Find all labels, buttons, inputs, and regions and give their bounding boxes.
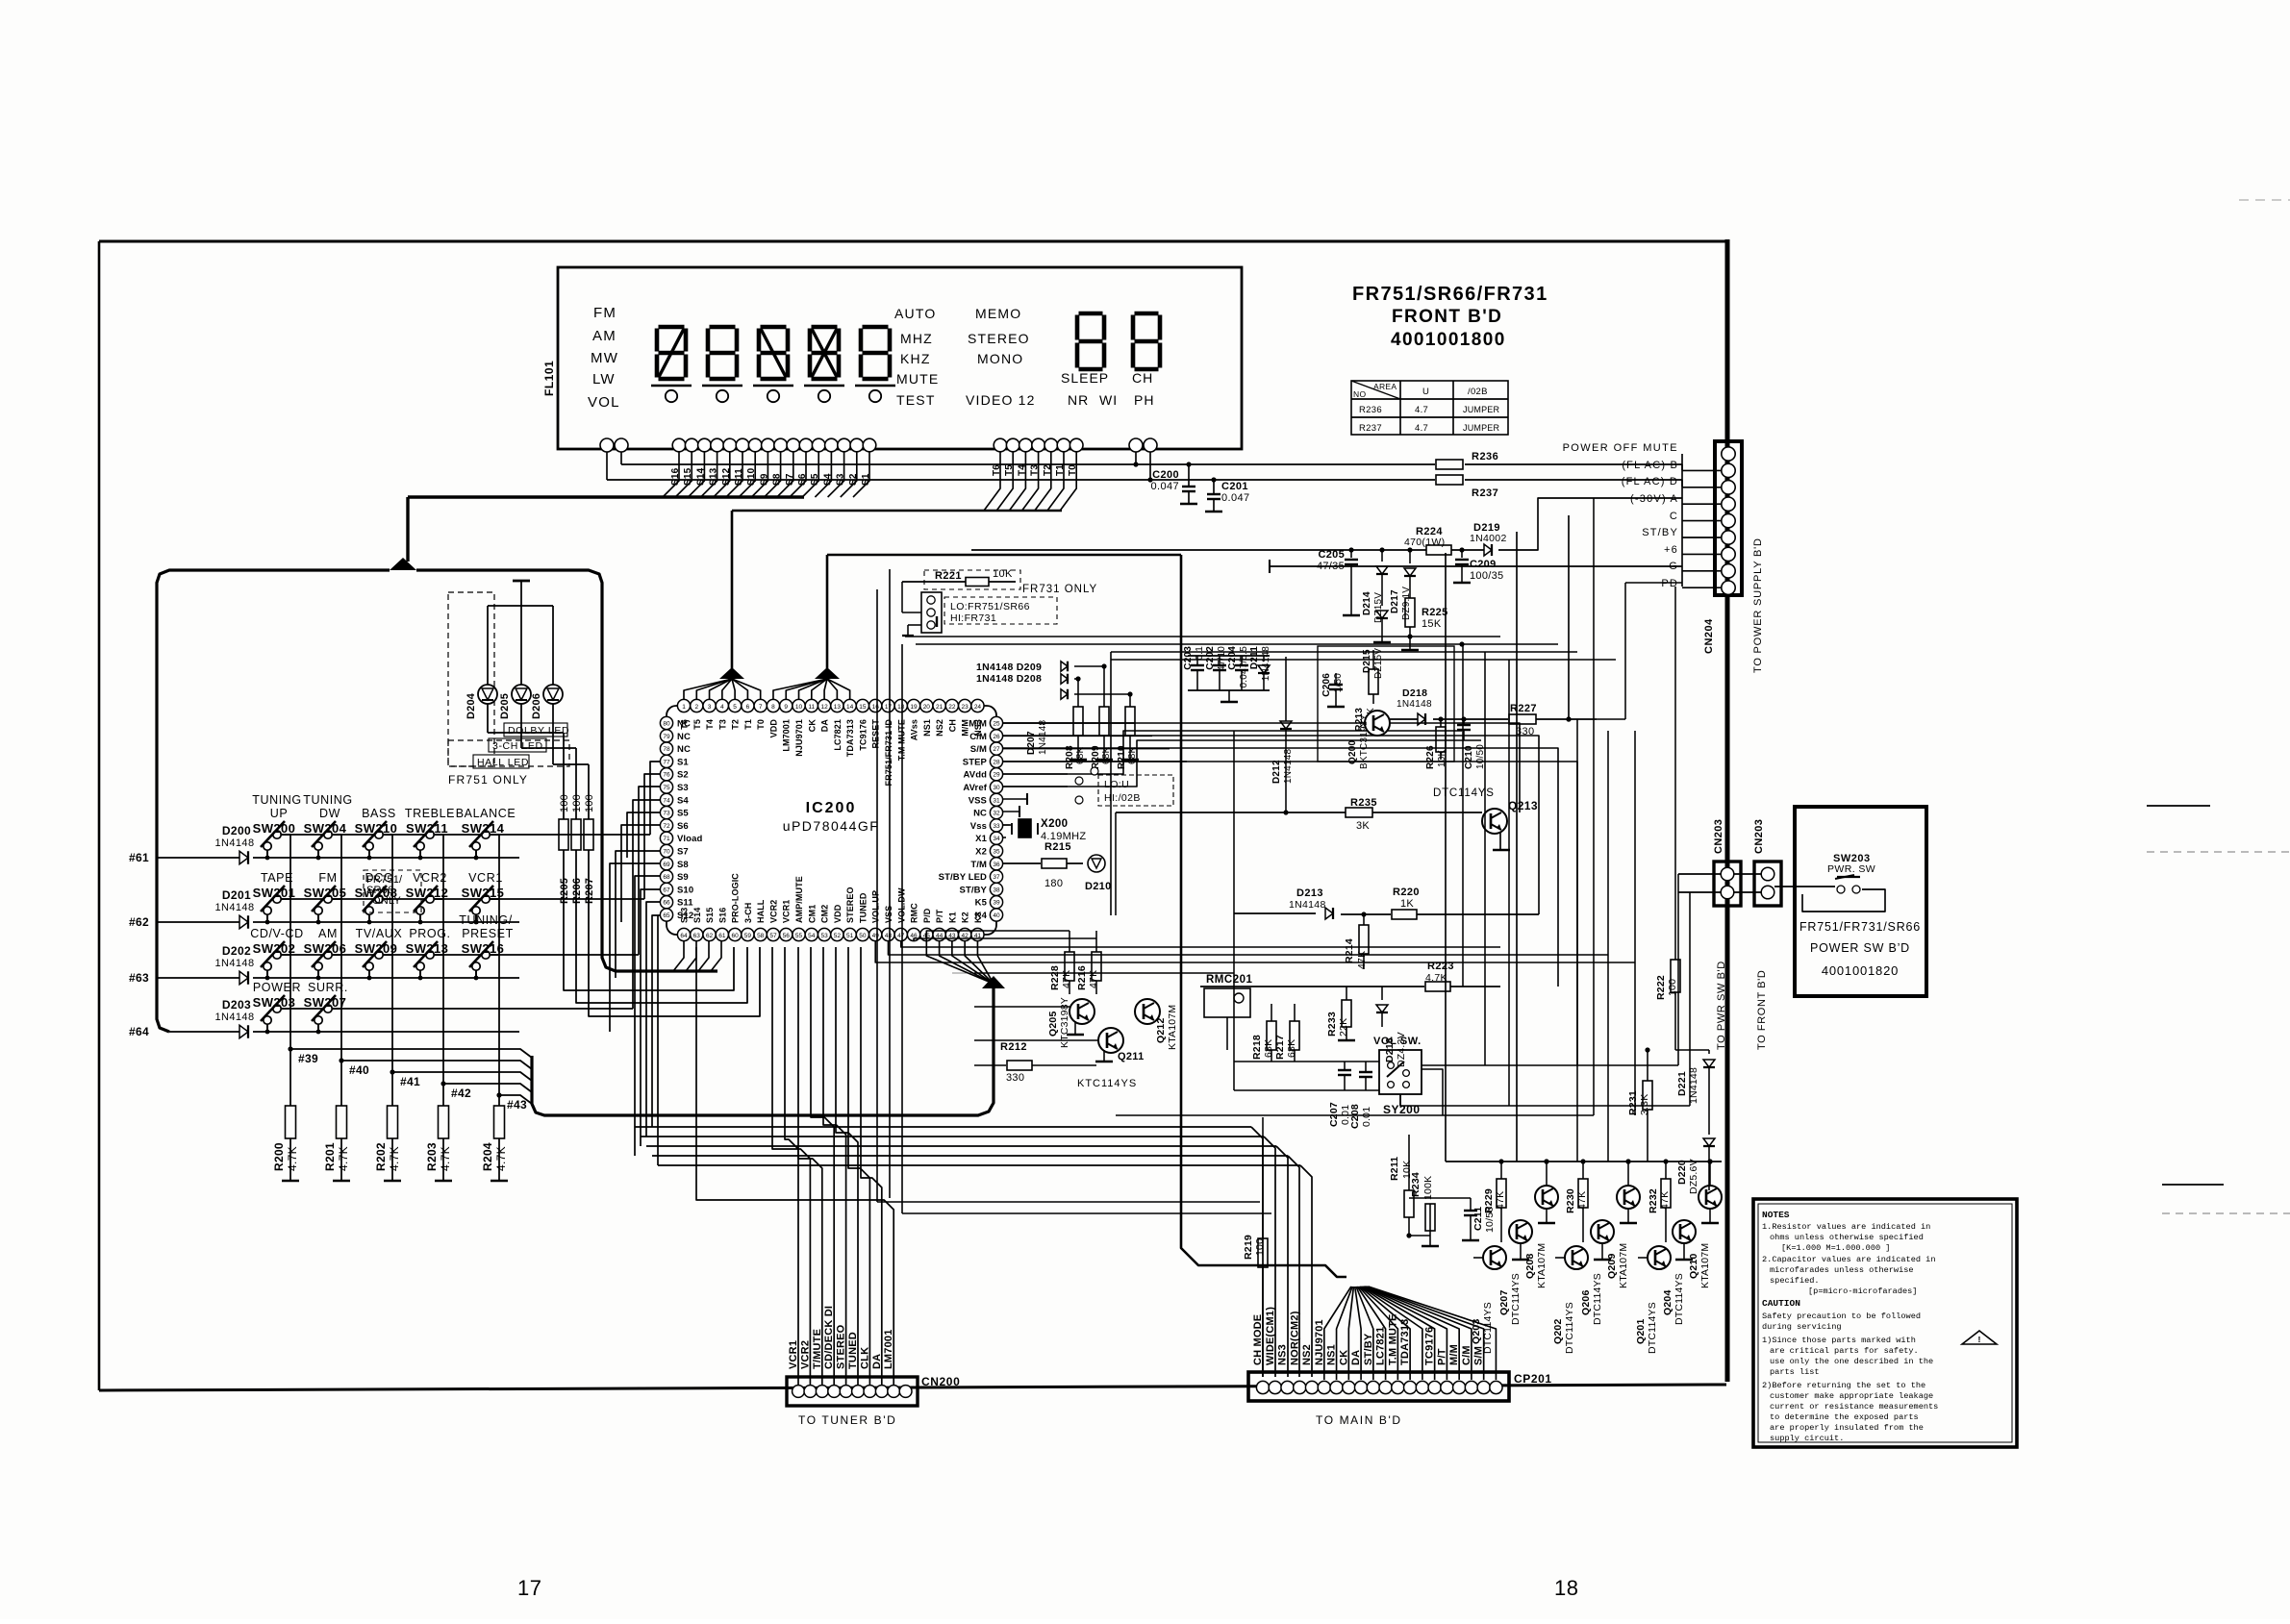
svg-text:4.7: 4.7 xyxy=(1415,423,1428,434)
svg-text:TO POWER SUPPLY B'D: TO POWER SUPPLY B'D xyxy=(1752,537,1764,673)
wire +6 rail to transistor groups xyxy=(1446,553,1722,1164)
svg-text:MUTE: MUTE xyxy=(896,371,939,387)
switch SW206 xyxy=(304,927,347,980)
svg-text:6: 6 xyxy=(746,704,750,711)
svg-text:77: 77 xyxy=(663,759,670,765)
svg-text:R203: R203 xyxy=(425,1142,439,1171)
svg-text:11: 11 xyxy=(808,704,815,711)
svg-text:C209: C209 xyxy=(1470,559,1497,570)
diode D219 xyxy=(1451,522,1507,556)
svg-text:0.047/5.5: 0.047/5.5 xyxy=(1239,646,1249,688)
svg-text:R215: R215 xyxy=(1044,841,1071,853)
capacitor C207 xyxy=(1328,1062,1351,1127)
power switch board outline xyxy=(1795,807,1926,996)
svg-text:1N4148: 1N4148 xyxy=(1397,699,1432,710)
svg-text:26: 26 xyxy=(993,734,1000,740)
resistor R234 xyxy=(1409,1172,1439,1246)
svg-text:R214: R214 xyxy=(1344,938,1355,963)
diode D220 xyxy=(1676,1138,1715,1194)
svg-text:CN200: CN200 xyxy=(921,1375,960,1388)
wire key matrix rail row3 xyxy=(290,954,639,956)
resistor R233 xyxy=(1326,987,1355,1040)
svg-text:TDA7313: TDA7313 xyxy=(845,719,855,757)
svg-text:R219: R219 xyxy=(1243,1235,1254,1260)
svg-text:DTC114YS: DTC114YS xyxy=(1564,1302,1575,1354)
IC200 S13-S16 pin stubs to thick bus xyxy=(673,941,721,971)
svg-text:D202: D202 xyxy=(222,944,251,958)
svg-text:AVss: AVss xyxy=(910,719,919,740)
CN204 pin name labels xyxy=(1563,442,1678,589)
volume switch SY200 xyxy=(1373,1036,1422,1116)
capacitor C204 xyxy=(1227,646,1249,690)
svg-text:SW209: SW209 xyxy=(355,941,398,956)
svg-text:S7: S7 xyxy=(677,847,689,858)
node #42 xyxy=(440,1081,471,1100)
wire ST/BY net vertical xyxy=(1516,532,1518,1162)
svg-text:0.1: 0.1 xyxy=(1195,646,1205,661)
svg-text:Q212: Q212 xyxy=(1155,1018,1167,1044)
svg-text:1N4148: 1N4148 xyxy=(1283,749,1294,784)
diode D216 xyxy=(1376,987,1407,1067)
svg-text:S6: S6 xyxy=(677,821,689,832)
svg-text:FR751/FR731/SR66: FR751/FR731/SR66 xyxy=(1799,920,1921,934)
IC200 right pin labels xyxy=(939,719,988,922)
FL101 sleep seven-segment digit 1 xyxy=(1077,313,1104,369)
svg-text:R200: R200 xyxy=(272,1142,286,1171)
svg-text:15: 15 xyxy=(859,704,867,711)
wire K lines extensions xyxy=(952,973,1234,1040)
svg-text:SW216: SW216 xyxy=(462,941,505,956)
diode D208 xyxy=(976,673,1078,685)
junction arrow IC200 top fan 1 xyxy=(719,667,744,679)
svg-text:D204: D204 xyxy=(466,692,477,719)
svg-text:Safety precaution to be follow: Safety precaution to be followed xyxy=(1762,1312,1921,1321)
svg-text:SW203: SW203 xyxy=(253,995,296,1010)
svg-text:AM: AM xyxy=(592,328,617,344)
svg-text:NC: NC xyxy=(677,744,691,755)
transistor Q204 xyxy=(1662,1220,1696,1325)
svg-text:LM7001: LM7001 xyxy=(782,719,792,752)
svg-text:VSS: VSS xyxy=(969,795,987,806)
switch SW213 xyxy=(406,927,451,980)
svg-text:FRONT B'D: FRONT B'D xyxy=(1392,307,1502,327)
IC200 part number text xyxy=(783,800,880,834)
capacitor C208 xyxy=(1349,1062,1372,1129)
svg-text:1N4148: 1N4148 xyxy=(1261,646,1271,681)
svg-text:4.7: 4.7 xyxy=(1415,405,1428,415)
IC200 left pin labels xyxy=(677,719,702,922)
svg-text:Vload: Vload xyxy=(677,834,702,844)
svg-text:FR751/SR66/FR731: FR751/SR66/FR731 xyxy=(1352,284,1548,305)
svg-text:IC200: IC200 xyxy=(806,800,857,816)
svg-text:KTA107M: KTA107M xyxy=(1536,1243,1548,1288)
svg-text:HALL: HALL xyxy=(756,899,766,923)
IC200 bottom pin labels xyxy=(680,873,983,923)
svg-text:FR751/FR731 ID: FR751/FR731 ID xyxy=(884,719,893,787)
resistor R203 xyxy=(425,1106,452,1181)
svg-text:SW211: SW211 xyxy=(406,821,448,836)
svg-text:C200: C200 xyxy=(1152,469,1179,481)
svg-text:VDD: VDD xyxy=(833,904,843,923)
wire CN203 interconnect xyxy=(1400,874,1761,1106)
transistor Q202 xyxy=(1552,1246,1588,1354)
svg-text:27: 27 xyxy=(993,746,1000,753)
transistor Q201 xyxy=(1635,1246,1671,1354)
svg-text:47K: 47K xyxy=(1576,1191,1588,1210)
svg-text:Q206: Q206 xyxy=(1580,1290,1592,1316)
svg-text:AUTO: AUTO xyxy=(894,306,936,321)
power board title text xyxy=(1799,920,1921,978)
transistor Q213 xyxy=(1433,787,1538,850)
svg-text:38: 38 xyxy=(993,887,1000,893)
svg-text:1N4148: 1N4148 xyxy=(215,1012,255,1023)
label TO MAIN B'D xyxy=(1316,1413,1402,1427)
switch SW212 xyxy=(406,871,449,924)
svg-text:C201: C201 xyxy=(1221,481,1248,492)
svg-text:10/50: 10/50 xyxy=(1484,1207,1496,1233)
diode D201 xyxy=(215,888,255,929)
diode D218 xyxy=(1390,687,1462,725)
svg-text:STEREO: STEREO xyxy=(845,887,855,923)
svg-text:SURR.: SURR. xyxy=(308,981,348,994)
svg-text:SW201: SW201 xyxy=(253,886,296,900)
svg-text:Q213: Q213 xyxy=(1508,799,1538,812)
svg-text:LW: LW xyxy=(592,371,616,387)
transistor Q203 xyxy=(1471,1246,1506,1354)
resistor R214 xyxy=(1344,914,1369,969)
LED D204 xyxy=(466,685,497,719)
label TO POWER SUPPLY B'D xyxy=(1752,537,1764,673)
svg-text:SW207: SW207 xyxy=(304,995,347,1010)
svg-text:CM1: CM1 xyxy=(807,905,817,923)
svg-text:NC: NC xyxy=(973,809,987,819)
svg-text:CD/V-CD: CD/V-CD xyxy=(250,927,304,940)
node #61 xyxy=(129,851,149,864)
svg-text:R236: R236 xyxy=(1359,405,1382,415)
svg-text:47/10: 47/10 xyxy=(1217,646,1227,671)
svg-text:74: 74 xyxy=(663,797,670,804)
svg-text:uPD78044GF: uPD78044GF xyxy=(783,818,880,834)
svg-text:C: C xyxy=(1670,511,1678,522)
label CP201 xyxy=(1514,1372,1552,1386)
svg-text:UP: UP xyxy=(270,807,289,820)
dashed box LO:FR751/SR66 HI:FR731 xyxy=(944,597,1057,624)
svg-text:3-CH: 3-CH xyxy=(743,903,753,923)
svg-text:72: 72 xyxy=(663,823,670,830)
svg-text:DW: DW xyxy=(319,807,340,820)
switch SW207 xyxy=(304,981,348,1034)
svg-text:ONLY: ONLY xyxy=(372,895,401,907)
wire FL101 right pins to nets xyxy=(1133,452,1152,483)
svg-text:specified.: specified. xyxy=(1770,1276,1820,1286)
svg-text:ST/BY: ST/BY xyxy=(1642,527,1678,538)
svg-text:18: 18 xyxy=(1554,1576,1578,1600)
warning triangle symbol xyxy=(1962,1331,1997,1345)
svg-text:#63: #63 xyxy=(129,971,149,985)
svg-text:65: 65 xyxy=(663,912,670,919)
svg-text:NS3: NS3 xyxy=(1277,1344,1289,1365)
resistor R230 xyxy=(1565,1162,1588,1242)
FL101 band labels FM AM MW LW VOL xyxy=(588,305,620,411)
dashed box FR751 ONLY (LED section) xyxy=(448,592,569,787)
diode D211 xyxy=(1249,646,1271,690)
svg-text:current or resistance measurem: current or resistance measurements xyxy=(1770,1402,1938,1412)
notes and caution box xyxy=(1753,1199,2017,1447)
connector CN200 xyxy=(787,1377,918,1406)
diode D200 xyxy=(215,824,255,864)
svg-text:R232: R232 xyxy=(1648,1188,1659,1213)
svg-text:(-30V) A: (-30V) A xyxy=(1630,493,1678,505)
svg-text:TC9176: TC9176 xyxy=(858,719,868,751)
svg-text:S14: S14 xyxy=(692,908,702,923)
wire Vss ties xyxy=(1003,793,1027,825)
svg-text:62: 62 xyxy=(706,933,714,939)
svg-text:RMC201: RMC201 xyxy=(1206,974,1252,986)
svg-text:4.7K: 4.7K xyxy=(494,1146,508,1171)
svg-text:1N4148 D208: 1N4148 D208 xyxy=(976,673,1042,685)
svg-text:1)Since those parts marked wit: 1)Since those parts marked with xyxy=(1762,1336,1916,1345)
svg-text:9: 9 xyxy=(784,704,788,711)
resistor R231 xyxy=(1627,1047,1652,1162)
svg-text:NOR(CM2): NOR(CM2) xyxy=(1289,1311,1300,1365)
node #41 xyxy=(390,1069,420,1088)
capacitor C201 xyxy=(1205,477,1250,512)
svg-text:S9: S9 xyxy=(677,872,689,883)
svg-text:47K: 47K xyxy=(1659,1191,1671,1210)
capacitor C210 xyxy=(1457,716,1486,769)
svg-text:JUMPER: JUMPER xyxy=(1463,405,1500,414)
svg-text:18: 18 xyxy=(897,704,905,711)
svg-text:31: 31 xyxy=(993,797,1000,804)
svg-text:1.Resistor values are indicate: 1.Resistor values are indicated in xyxy=(1762,1222,1930,1232)
LED D210 xyxy=(1085,855,1112,892)
svg-text:33: 33 xyxy=(993,823,1000,830)
svg-text:MONO: MONO xyxy=(977,351,1023,366)
svg-text:TV/AUX: TV/AUX xyxy=(356,927,403,940)
svg-text:Q210: Q210 xyxy=(1688,1254,1699,1280)
FL101 reference label xyxy=(542,361,556,396)
svg-text:C202: C202 xyxy=(1205,646,1216,670)
capacitor C206 xyxy=(1321,673,1345,707)
label TO FRONT B'D xyxy=(1756,970,1768,1050)
svg-text:CM2: CM2 xyxy=(820,905,830,923)
resistor R236 xyxy=(1436,451,1498,469)
svg-text:S2: S2 xyxy=(677,770,689,781)
svg-text:4001001820: 4001001820 xyxy=(1822,963,1899,978)
svg-text:56: 56 xyxy=(783,933,791,939)
wire key matrix rail row1 xyxy=(290,834,650,836)
wire vertical drops from R221 area xyxy=(877,589,1271,1213)
svg-text:#62: #62 xyxy=(129,915,149,929)
resistor R204 xyxy=(481,1106,508,1181)
svg-text:3-CH LED: 3-CH LED xyxy=(492,740,543,752)
svg-text:2.Capacitor values are indicat: 2.Capacitor values are indicated in xyxy=(1762,1255,1936,1264)
svg-text:R204: R204 xyxy=(481,1142,494,1171)
svg-text:49: 49 xyxy=(872,933,880,939)
svg-text:NS2: NS2 xyxy=(1301,1344,1313,1365)
svg-text:TO TUNER B'D: TO TUNER B'D xyxy=(798,1413,896,1427)
svg-text:SW212: SW212 xyxy=(406,886,449,900)
switch SW202 xyxy=(250,927,304,980)
svg-text:2: 2 xyxy=(694,704,698,711)
svg-text:PH: PH xyxy=(1134,392,1154,408)
svg-text:53: 53 xyxy=(820,933,828,939)
svg-text:T3: T3 xyxy=(717,719,727,730)
svg-text:R230: R230 xyxy=(1565,1188,1576,1213)
label CN203 right xyxy=(1753,819,1765,854)
svg-text:63: 63 xyxy=(693,933,701,939)
svg-text:T/M: T/M xyxy=(970,860,987,870)
node #40 xyxy=(339,1058,369,1077)
svg-text:57: 57 xyxy=(769,933,777,939)
svg-text:MHZ: MHZ xyxy=(900,331,933,346)
svg-text:68K: 68K xyxy=(1286,1039,1297,1058)
FL101 S pin drop wires xyxy=(663,452,869,497)
svg-text:PROG.: PROG. xyxy=(409,927,450,940)
svg-text:X1: X1 xyxy=(975,834,987,844)
node #39 xyxy=(288,1046,318,1065)
svg-text:Q207: Q207 xyxy=(1498,1290,1510,1316)
sub-circuit box Q200 xyxy=(1318,646,1454,762)
svg-text:T4: T4 xyxy=(705,719,715,730)
diode D202 xyxy=(215,944,255,985)
svg-text:3: 3 xyxy=(708,704,712,711)
FL101 digit pins T6-T0 xyxy=(994,438,1083,452)
diode D203 xyxy=(215,998,255,1038)
svg-text:58: 58 xyxy=(757,933,765,939)
svg-text:R218: R218 xyxy=(1251,1035,1263,1060)
svg-text:#41: #41 xyxy=(400,1075,420,1088)
svg-text:SW215: SW215 xyxy=(462,886,505,900)
svg-text:54: 54 xyxy=(808,933,816,939)
svg-text:[p=micro-microfarades]: [p=micro-microfarades] xyxy=(1808,1287,1917,1296)
svg-text:VOL.UP: VOL.UP xyxy=(871,890,881,923)
svg-text:K5: K5 xyxy=(975,898,988,909)
transistor Q210 xyxy=(1688,1159,1722,1288)
wire long horizontal runs below jumper xyxy=(890,569,1616,1198)
svg-text:#61: #61 xyxy=(129,851,149,864)
svg-text:10: 10 xyxy=(795,704,803,711)
svg-text:P/D: P/D xyxy=(922,908,932,923)
wire bus FL101 S pins to key matrix (thick) xyxy=(408,497,804,562)
wire key matrix row #61 xyxy=(157,857,519,859)
svg-text:20: 20 xyxy=(923,704,931,711)
svg-text:#40: #40 xyxy=(349,1063,369,1077)
FL101 seven-segment digit 5 xyxy=(855,327,895,402)
svg-text:R202: R202 xyxy=(374,1142,388,1171)
svg-text:R221: R221 xyxy=(935,570,962,582)
svg-text:4001001800: 4001001800 xyxy=(1391,330,1506,350)
diode D209 xyxy=(976,662,1104,673)
FL101 segment pins S16-S1 xyxy=(672,438,876,452)
svg-text:60: 60 xyxy=(732,933,740,939)
wire IC200 right pins breakout xyxy=(1003,723,1187,762)
label KTC114YS xyxy=(1077,1078,1137,1089)
key matrix column wires xyxy=(290,835,499,1106)
svg-text:4: 4 xyxy=(720,704,724,711)
svg-text:WI: WI xyxy=(1099,392,1118,408)
svg-text:17: 17 xyxy=(885,704,893,711)
svg-text:1N4148: 1N4148 xyxy=(1038,720,1048,755)
svg-text:VCR2: VCR2 xyxy=(413,871,447,885)
svg-text:4.7K: 4.7K xyxy=(286,1146,299,1171)
svg-text:28: 28 xyxy=(993,759,1000,765)
FL101 pin labels T6-T0 xyxy=(992,464,1078,476)
svg-text:Vss: Vss xyxy=(970,821,987,832)
switch SW214 xyxy=(456,807,516,860)
svg-text:5: 5 xyxy=(733,704,737,711)
label CN200 xyxy=(921,1375,960,1388)
capacitor C202 xyxy=(1205,646,1227,690)
svg-text:FR731 ONLY: FR731 ONLY xyxy=(1022,584,1097,595)
resistor R211 xyxy=(1389,1135,1414,1238)
svg-text:37: 37 xyxy=(993,874,1000,881)
svg-text:AM: AM xyxy=(318,927,338,940)
svg-text:DOLBY LED: DOLBY LED xyxy=(508,725,569,737)
connector CN204 xyxy=(1715,441,1742,595)
svg-text:0.047: 0.047 xyxy=(1150,481,1179,492)
svg-text:SW205: SW205 xyxy=(304,886,347,900)
svg-text:RMC: RMC xyxy=(910,903,919,923)
svg-text:X200: X200 xyxy=(1041,818,1068,830)
svg-text:HI:/02B: HI:/02B xyxy=(1104,792,1141,804)
svg-text:100K: 100K xyxy=(1422,1176,1434,1200)
wire C net vertical xyxy=(1566,515,1571,722)
switch SW204 xyxy=(303,793,353,860)
wire key matrix rail row2 xyxy=(290,898,644,900)
FL101 grid pins (left pair) xyxy=(600,438,628,452)
resistor R213 xyxy=(1354,650,1378,732)
transistor Q208 xyxy=(1524,1159,1558,1288)
svg-text:MEMO: MEMO xyxy=(975,306,1021,321)
svg-text:SY200: SY200 xyxy=(1383,1103,1421,1116)
jumper connector (3 pin) xyxy=(902,582,942,636)
svg-text:79: 79 xyxy=(663,734,670,740)
svg-text:WIDE(CM1): WIDE(CM1) xyxy=(1265,1307,1276,1365)
svg-text:22: 22 xyxy=(948,704,956,711)
label TO PWR SW B'D xyxy=(1716,961,1727,1050)
svg-text:C210: C210 xyxy=(1464,745,1474,769)
svg-text:0.047: 0.047 xyxy=(1221,492,1250,504)
svg-text:K1: K1 xyxy=(947,912,957,923)
svg-text:R206: R206 xyxy=(571,878,583,904)
svg-text:DTC114YS: DTC114YS xyxy=(1592,1273,1603,1325)
svg-text:FR751 ONLY: FR751 ONLY xyxy=(448,773,528,787)
svg-text:0.01: 0.01 xyxy=(1361,1107,1372,1127)
wire key bus to IC200 fan (thick) xyxy=(532,988,994,1115)
svg-text:D205: D205 xyxy=(499,693,511,719)
wire #41 to bus xyxy=(392,1072,532,1081)
power tick for LEDs xyxy=(513,581,530,606)
svg-text:66: 66 xyxy=(663,900,670,907)
key matrix enclosure (thick open box) xyxy=(157,570,717,1032)
svg-text:C204: C204 xyxy=(1227,646,1238,670)
svg-text:68K: 68K xyxy=(1263,1039,1274,1058)
svg-text:1N4148: 1N4148 xyxy=(215,837,255,849)
svg-text:51: 51 xyxy=(846,933,854,939)
FL101 sleep seven-segment digit 2 xyxy=(1133,313,1160,369)
svg-text:69: 69 xyxy=(663,862,670,868)
resistor R219 xyxy=(1243,1117,1268,1377)
FL101 T pin drop wires xyxy=(984,452,1076,511)
svg-text:47: 47 xyxy=(897,933,905,939)
schematic outer border frame xyxy=(99,239,1727,1390)
svg-text:R234: R234 xyxy=(1410,1172,1422,1197)
svg-text:C203: C203 xyxy=(1183,646,1194,670)
svg-text:100: 100 xyxy=(584,794,595,812)
svg-text:POWER: POWER xyxy=(253,981,301,994)
svg-text:R212: R212 xyxy=(1000,1041,1027,1053)
